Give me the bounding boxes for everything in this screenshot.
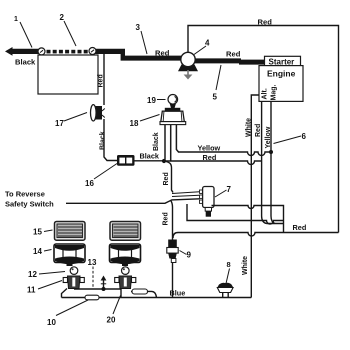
svg-text:17: 17 <box>55 119 64 128</box>
svg-text:Red: Red <box>255 124 262 137</box>
svg-text:Starter: Starter <box>269 57 295 66</box>
svg-text:Blue: Blue <box>170 289 186 298</box>
condenser 17 <box>91 105 105 121</box>
svg-text:Red: Red <box>258 18 273 27</box>
headlight lens 15 left <box>55 222 86 241</box>
wire blue bottom <box>62 289 252 298</box>
callout 6 <box>274 132 307 144</box>
wire solenoid top to right border (red) <box>188 18 339 233</box>
callout 14 <box>33 247 52 256</box>
callout 4 <box>194 39 210 55</box>
wire black connector16 to junction <box>135 152 165 161</box>
wire red from right border to fuse <box>173 223 339 238</box>
svg-text:Engine: Engine <box>267 69 296 79</box>
callout 19 <box>147 96 166 105</box>
wire key switch lead middle <box>170 125 172 161</box>
svg-text:6: 6 <box>302 132 307 141</box>
svg-text:13: 13 <box>88 258 97 267</box>
svg-text:9: 9 <box>187 251 192 260</box>
svg-text:Red: Red <box>98 74 105 87</box>
svg-text:Black: Black <box>153 132 160 151</box>
battery 2 <box>38 55 98 94</box>
svg-text:To Reverse: To Reverse <box>5 190 45 199</box>
svg-text:Black: Black <box>100 131 107 150</box>
callout 13 <box>88 258 97 288</box>
svg-text:11: 11 <box>27 286 36 295</box>
callout 16 <box>85 164 117 189</box>
callout 15 <box>33 228 53 237</box>
solenoid 4 <box>181 52 195 66</box>
svg-text:Red: Red <box>155 49 170 58</box>
wire red from engine down <box>255 102 267 224</box>
key 19 <box>168 95 178 109</box>
wire red horizontal (junction to engine red) <box>164 153 262 165</box>
svg-text:7: 7 <box>227 185 232 194</box>
wire right socket drop <box>120 289 122 298</box>
svg-text:15: 15 <box>33 228 42 237</box>
svg-text:2: 2 <box>60 13 65 22</box>
battery terminal + <box>38 48 45 55</box>
node yellow junction <box>269 150 273 154</box>
svg-text:16: 16 <box>85 179 94 188</box>
horn 8 <box>217 283 233 298</box>
connector 16 <box>117 155 135 166</box>
wire red battery tap down to condenser <box>98 54 105 106</box>
wire battery cable black (thick bar with arrow) <box>5 47 44 67</box>
svg-text:12: 12 <box>28 270 37 279</box>
callout 12 <box>28 270 65 279</box>
svg-text:Black: Black <box>140 152 160 161</box>
callout 5 <box>213 65 222 102</box>
wire switch line down to fuse 9 <box>163 200 173 240</box>
svg-text:8: 8 <box>227 260 231 269</box>
callout 17 <box>55 113 87 129</box>
wire engine red/yellow hooks join <box>267 223 284 225</box>
key switch 18 <box>160 108 186 125</box>
starter box <box>265 56 301 66</box>
callout 18 <box>130 115 160 129</box>
battery terminal - <box>89 48 96 55</box>
svg-text:10: 10 <box>47 318 56 327</box>
callout 20 <box>107 296 121 325</box>
svg-text:White: White <box>246 118 253 137</box>
wire harness between sockets <box>74 288 121 290</box>
wire solenoid to starter (thick red bar) <box>195 50 265 65</box>
lamp socket 20 right <box>115 276 136 289</box>
svg-text:14: 14 <box>33 247 42 256</box>
svg-text:18: 18 <box>130 119 139 128</box>
wire black condenser down to connector 16 <box>100 119 118 161</box>
bulb right <box>122 267 130 275</box>
svg-text:Yellow: Yellow <box>198 144 221 153</box>
callout 7 <box>215 185 232 197</box>
wire to reverse safety switch <box>5 190 200 209</box>
node harness junction <box>102 287 106 291</box>
svg-text:Yellow: Yellow <box>265 126 272 148</box>
svg-text:Red: Red <box>293 223 307 232</box>
wire switch pin fan <box>172 192 200 197</box>
svg-text:Black: Black <box>15 58 36 67</box>
headlight lens 15 right <box>110 222 141 241</box>
callout 1 <box>14 16 32 48</box>
callout 3 <box>136 23 148 54</box>
svg-text:1: 1 <box>14 16 18 23</box>
wire key switch lead black <box>153 125 165 160</box>
wire red drop to light switch <box>163 162 173 193</box>
connector 10 <box>85 295 99 300</box>
node black/red junction <box>162 159 166 163</box>
ground pin symbol <box>101 276 107 289</box>
svg-text:White: White <box>242 256 249 275</box>
headlight housing 14 right <box>110 244 141 266</box>
wire switch L to right <box>187 204 284 224</box>
bulb 12 left <box>70 267 78 275</box>
svg-text:Alt.: Alt. <box>262 88 269 99</box>
wire right socket to connector <box>131 291 157 297</box>
svg-text:Red: Red <box>203 153 217 162</box>
solenoid 4 ground arrow <box>184 70 193 80</box>
svg-text:3: 3 <box>136 23 141 32</box>
wire white (alt to bottom blue line) <box>242 95 259 298</box>
wire yellow from engine down <box>265 102 275 224</box>
fuse holder 9 <box>167 240 178 263</box>
svg-text:19: 19 <box>147 96 156 105</box>
callout 9 <box>180 251 192 260</box>
wire left socket drop <box>62 289 68 298</box>
wire bar terminal2 to step <box>90 49 182 61</box>
lamp socket 11 left <box>63 276 84 289</box>
battery cell caps (dashes) <box>47 50 88 54</box>
engine box <box>259 66 303 102</box>
svg-text:20: 20 <box>107 316 116 325</box>
callout 10 <box>47 300 88 327</box>
callout 11 <box>27 281 62 295</box>
wire yellow horizontal <box>178 144 271 156</box>
headlight housing 14 left <box>54 244 85 266</box>
callout 2 <box>60 13 77 46</box>
svg-text:Red: Red <box>226 50 241 59</box>
svg-text:Red: Red <box>163 212 170 225</box>
svg-text:Safety Switch: Safety Switch <box>5 200 54 209</box>
svg-text:5: 5 <box>213 93 218 102</box>
callout 8 <box>226 260 231 284</box>
svg-text:Red: Red <box>163 172 170 185</box>
light switch 7 <box>200 187 215 217</box>
svg-text:Mag.: Mag. <box>271 85 278 101</box>
wire key switch lead right <box>176 125 178 152</box>
wire fuse to blue line <box>172 263 174 298</box>
wire switch bushing to right drop <box>212 206 284 233</box>
connector right of socket <box>132 289 148 294</box>
solenoid 4 flange <box>178 65 198 72</box>
